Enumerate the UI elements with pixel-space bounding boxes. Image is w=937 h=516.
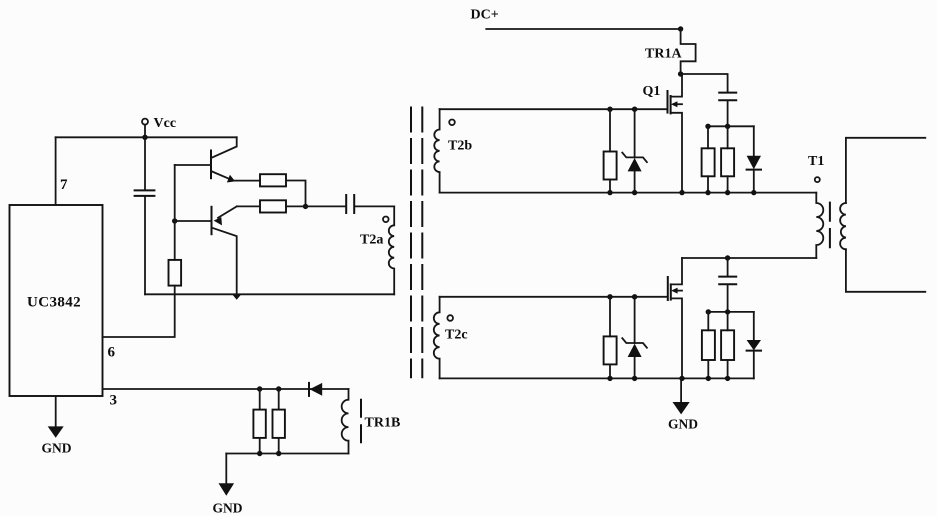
wire driver bottom rail — [145, 293, 394, 295]
svg-text:6: 6 — [108, 345, 116, 361]
IC U1 UC3842 body — [10, 205, 103, 396]
wire D2 top lead — [753, 126, 755, 156]
capacitor C1 plates — [135, 190, 155, 196]
wire snubber node bar lower — [708, 311, 754, 313]
wire R4a top lead — [259, 389, 261, 410]
transformer T2b winding — [434, 109, 439, 192]
wire T1 secondary top lead — [846, 138, 925, 203]
wire R3 bottom to pin6 — [103, 286, 175, 337]
ground GND2 arrow — [219, 483, 235, 495]
junction D2 bottom — [751, 190, 756, 195]
transistor Q4 PNP base bar — [211, 207, 213, 234]
wire R4b top lead — [278, 389, 280, 410]
svg-text:Vcc: Vcc — [154, 116, 177, 131]
wire Q3 emitter — [212, 172, 231, 180]
svg-text:GND: GND — [42, 441, 72, 456]
wire T2c top rail to Q2 gate — [440, 296, 668, 298]
ground GND3 arrow — [673, 402, 690, 414]
transformer T1 phase dot — [815, 177, 820, 182]
wire drain node to C3 — [681, 74, 728, 92]
capacitor C3 plates — [719, 93, 736, 101]
diode D1 triangle — [310, 383, 323, 396]
wire pin3 rail — [103, 388, 349, 390]
resistor R8 body — [604, 336, 617, 364]
resistor R3 body — [169, 260, 182, 286]
svg-text:T2a: T2a — [360, 233, 383, 248]
transformer T2 core dashed left — [410, 108, 412, 378]
wire pin7 vertical — [55, 137, 57, 205]
arrowhead Q4 collector at rail — [232, 295, 241, 300]
transformer T2a winding — [389, 206, 394, 294]
junction DC+ TR1A — [678, 26, 683, 31]
junction R1/R2 output node — [303, 204, 308, 209]
inductor TR1A winding — [681, 29, 696, 74]
wire snubber node bar upper — [708, 125, 754, 127]
junction pin3 R4b — [276, 386, 281, 391]
wire R7 top lead — [727, 126, 729, 148]
zener Z2 triangle — [628, 344, 642, 357]
wire R2 right — [286, 205, 306, 207]
diode D2 triangle — [747, 156, 761, 169]
junction lower snubber R9 — [706, 309, 711, 314]
junction R5 top — [607, 107, 612, 112]
wire R2 left — [237, 205, 260, 207]
mosfet Q2 gate bar — [667, 277, 669, 300]
wire pin3 bottom rail — [226, 453, 348, 455]
wire R5 bottom lead — [609, 180, 611, 193]
zener Z2 cathode bar — [622, 338, 647, 348]
zener Z1 triangle — [628, 158, 642, 171]
wire R10 bottom lead — [727, 360, 729, 378]
zener Z1 cathode bar — [622, 153, 647, 163]
mosfet Q2 body arrow line — [675, 290, 682, 292]
wire T2b top rail to Q1 gate — [440, 108, 668, 110]
wire Z1 bottom lead — [634, 171, 636, 192]
wire Z1 top lead — [634, 109, 636, 157]
wire Z2 top lead — [634, 297, 636, 343]
junction Q1 source at rail — [679, 190, 684, 195]
junction TR1A bottom / Q1 drain — [678, 71, 683, 76]
wire node to C2 — [306, 205, 347, 207]
junction bottom R4b — [276, 451, 281, 456]
wire Q3 emitter to R1 — [234, 180, 260, 182]
resistor R1 body — [260, 174, 286, 186]
junction bottom R4a — [257, 451, 262, 456]
junction R10 bottom — [725, 376, 730, 381]
diode D3 cathode bar — [747, 350, 761, 352]
transformer TR1B core — [360, 400, 362, 443]
wire upper source rail to T1 — [440, 192, 817, 194]
node Vcc terminal circle — [142, 119, 148, 125]
mosfet Q1 drain stub — [671, 74, 682, 97]
junction C4 top — [725, 255, 730, 260]
mosfet Q2 channel bar — [670, 284, 672, 299]
junction Q2 source at ground rail — [679, 376, 684, 381]
junction at Vcc rail — [142, 135, 147, 140]
junction R9 bottom — [706, 376, 711, 381]
wire Q2 drain to T1 primary bottom — [682, 257, 816, 259]
wire C4 bottom to snubber node — [727, 285, 729, 312]
wire Q4 base lead — [175, 220, 212, 222]
resistor R4a body — [253, 410, 265, 438]
transformer T2b phase dot — [449, 120, 455, 126]
svg-text:UC3842: UC3842 — [27, 295, 81, 311]
wire R6 bottom lead — [707, 176, 709, 192]
mosfet Q2 drain stub — [671, 258, 682, 284]
junction R5 bottom — [607, 190, 612, 195]
transformer T1 primary winding — [816, 193, 823, 258]
wire Q4 collector — [212, 228, 237, 295]
svg-text:GND: GND — [213, 501, 243, 516]
junction Z2 bottom — [632, 376, 637, 381]
junction snubber C3 — [725, 124, 730, 129]
wire Q3 collector — [212, 137, 237, 157]
wire base bias vertical — [174, 165, 176, 260]
wire R5 top lead — [609, 109, 611, 151]
ground GND1 arrow — [48, 426, 64, 437]
transistor Q3 NPN base bar — [210, 151, 212, 179]
wire R8 bottom lead — [609, 364, 611, 378]
junction R8 top — [607, 294, 612, 299]
wire R8 top lead — [609, 297, 611, 337]
wire C1 bottom lead — [144, 196, 146, 294]
junction Z2 top — [632, 294, 637, 299]
wire R4a bottom lead — [259, 438, 261, 454]
wire GND1 stem — [55, 396, 57, 426]
wire D3 top lead — [753, 312, 755, 340]
junction pin3 R4a — [257, 386, 262, 391]
arrowhead Q1 body — [671, 101, 678, 107]
resistor R6 body — [702, 148, 715, 176]
arrowhead Q2 body — [671, 288, 678, 294]
resistor R9 body — [702, 330, 715, 360]
transformer TR1B winding — [342, 389, 349, 454]
svg-text:GND: GND — [668, 417, 698, 432]
svg-text:T2b: T2b — [448, 139, 472, 154]
wire R4b bottom lead — [278, 438, 280, 454]
junction snubber R6 — [705, 124, 710, 129]
transformer T1 secondary winding — [840, 203, 846, 249]
junction lower snubber C4 — [725, 309, 730, 314]
capacitor C2 coupling plates — [346, 195, 354, 213]
wire GND2 stem — [225, 454, 227, 484]
wire DC+ rail — [486, 28, 680, 30]
resistor R7 body — [721, 148, 734, 176]
capacitor C4 plates — [719, 277, 736, 285]
junction R8 bottom — [607, 376, 612, 381]
mosfet Q1 source stub — [671, 113, 682, 193]
svg-text:Q1: Q1 — [643, 84, 661, 99]
junction Z1 bottom — [632, 190, 637, 195]
svg-text:3: 3 — [110, 393, 118, 409]
svg-text:T2c: T2c — [445, 328, 468, 343]
junction Q4 base — [172, 218, 177, 223]
wire R9 bottom lead — [707, 360, 709, 378]
mosfet Q1 gate bar — [667, 91, 669, 113]
wire Vcc rail horizontal — [56, 136, 237, 138]
wire lower ground rail — [440, 377, 754, 379]
wire R10 top lead — [727, 312, 729, 330]
wire R1 right — [286, 181, 306, 207]
resistor R2 body — [260, 200, 286, 212]
arrowhead Q4 emitter — [214, 217, 222, 225]
svg-text:7: 7 — [60, 177, 68, 193]
mosfet Q2 source stub — [671, 298, 682, 378]
wire R7 bottom lead — [727, 176, 729, 192]
svg-text:TR1A: TR1A — [645, 47, 682, 62]
wire T1 secondary bottom lead — [846, 249, 925, 291]
diode D1 cathode bar — [308, 383, 310, 396]
wire R9 top lead — [707, 312, 709, 330]
wire C3 bottom to snubber node — [727, 101, 729, 127]
wire C1 top lead — [144, 137, 146, 190]
diode D2 cathode bar — [747, 169, 761, 171]
mosfet Q1 channel bar — [670, 96, 672, 113]
wire Q4 emitter diagonal — [218, 206, 237, 217]
transformer T2c phase dot — [447, 315, 453, 321]
resistor R4b body — [273, 410, 285, 438]
wire GND3 stem — [680, 378, 682, 402]
junction Z1 top — [632, 107, 637, 112]
wire D3 bottom lead — [753, 351, 755, 379]
svg-text:TR1B: TR1B — [365, 416, 401, 431]
svg-text:T1: T1 — [808, 154, 824, 169]
arrowhead Q3 emitter — [227, 175, 235, 183]
junction R6 bottom — [705, 190, 710, 195]
wire Q3 base lead — [175, 164, 211, 166]
wire R6 top lead — [707, 126, 709, 148]
transformer T1 core — [829, 203, 831, 248]
transformer T2 core dashed right — [421, 108, 423, 378]
mosfet Q1 body arrow line — [675, 103, 682, 105]
wire D2 bottom lead — [753, 170, 755, 193]
wire Vcc stem — [144, 125, 146, 138]
svg-text:DC+: DC+ — [471, 8, 499, 23]
wire C4 top lead — [727, 258, 729, 276]
resistor R5 body — [604, 152, 617, 180]
junction R7 bottom — [725, 190, 730, 195]
resistor R10 body — [721, 330, 734, 360]
diode D3 triangle — [747, 340, 761, 350]
transformer T2c winding — [434, 297, 440, 379]
transformer T2a phase dot — [383, 217, 389, 223]
wire Z2 bottom lead — [634, 357, 636, 378]
wire C2 to T2a — [355, 205, 395, 207]
